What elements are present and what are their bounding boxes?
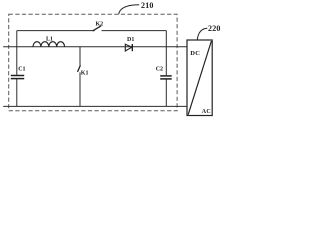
svg-text:220: 220 [208, 24, 221, 33]
wire: bypass top (right of K2) [102, 30, 167, 32]
capacitor C1 [11, 76, 24, 79]
wire: bypass top (left of K2) [17, 30, 95, 32]
wire: top input stub + main top rail [3, 46, 187, 48]
svg-text:L1: L1 [46, 37, 53, 43]
svg-text:D1: D1 [127, 37, 134, 43]
switch K1 branch: upper wire [79, 47, 81, 66]
capacitor C2 [160, 76, 172, 79]
svg-text:C1: C1 [18, 67, 25, 73]
svg-text:K1: K1 [81, 70, 89, 76]
wire: bottom input stub + bottom rail [3, 105, 187, 107]
svg-text:210: 210 [141, 1, 154, 10]
diode D1 [125, 44, 132, 51]
inverter box 220 (DC/AC) [187, 40, 212, 116]
switch K1 blade [78, 65, 81, 72]
svg-text:AC: AC [202, 109, 211, 115]
wire: K1 lower segment [79, 72, 81, 106]
wire: C2 branch lower [165, 79, 167, 106]
wire: bypass right vertical [165, 31, 167, 47]
svg-text:DC: DC [190, 50, 200, 57]
wire: below C1 to bottom rail [16, 79, 18, 106]
label 210 leader [119, 5, 140, 14]
inductor L1 [33, 42, 65, 47]
inverter diagonal [188, 41, 211, 115]
svg-text:C2: C2 [156, 66, 163, 72]
wire: C2 branch upper [165, 47, 167, 75]
dashed box 210 [9, 14, 177, 110]
svg-text:K2: K2 [96, 21, 104, 27]
switch K2 blade [93, 26, 101, 31]
label 220 leader [197, 28, 207, 39]
wire: left node vertical (bypass corner down to C1) [16, 31, 18, 75]
